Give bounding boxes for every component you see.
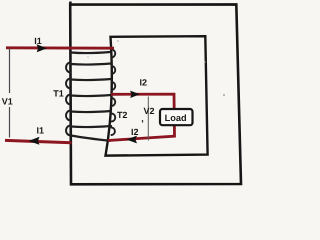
svg-text:T2: T2 xyxy=(117,110,128,120)
wire: primary bottom (V1 return) xyxy=(5,140,72,142)
svg-text:I1: I1 xyxy=(34,36,42,46)
coil right-side bumps xyxy=(112,50,116,136)
winding T1/T2 coil : flat turn strokes xyxy=(71,52,111,141)
svg-text:V1: V1 xyxy=(2,96,13,106)
arrow I1 top (right) xyxy=(37,44,48,52)
svg-text:I2: I2 xyxy=(139,77,147,87)
svg-text:T1: T1 xyxy=(53,88,64,98)
wire: primary top (V1 hot) xyxy=(6,46,114,49)
svg-text:Load: Load xyxy=(165,113,187,123)
arrow I2 bottom (left) xyxy=(127,136,138,144)
core inner box (window) xyxy=(106,36,208,155)
V1 measuring line xyxy=(9,49,11,138)
core outer box xyxy=(70,2,241,185)
svg-text:I2: I2 xyxy=(131,127,139,137)
wire: secondary top + right drop to Load xyxy=(108,94,175,140)
arrow I1 bottom (left) xyxy=(29,137,40,145)
svg-text:I1: I1 xyxy=(36,126,44,136)
arrow I2 top (right) xyxy=(130,91,140,98)
svg-text:,: , xyxy=(141,114,144,124)
Load box xyxy=(160,109,193,125)
V2 measuring line xyxy=(147,97,149,141)
coil left-side hooks xyxy=(66,63,71,136)
svg-text:V2: V2 xyxy=(143,106,154,116)
scan specks xyxy=(204,61,206,63)
